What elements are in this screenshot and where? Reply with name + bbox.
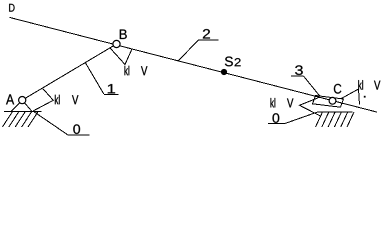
perpendicular-to-velocity wedge left of C bbox=[300, 97, 322, 116]
label 3 underline bbox=[291, 75, 304, 77]
label 0 right underline bbox=[268, 122, 286, 124]
label C bbox=[334, 84, 341, 94]
label 3 leader wire bbox=[304, 76, 320, 96]
label 0 right bbox=[273, 113, 280, 123]
label V left of C bbox=[287, 98, 293, 107]
ground hatching at A bbox=[2, 111, 38, 127]
label 0 left leader wire bbox=[33, 111, 67, 134]
wire link 1 A to B bbox=[22, 44, 116, 100]
ground line at A bbox=[4, 110, 42, 112]
label 1 underline bbox=[104, 94, 119, 96]
label 2 bbox=[203, 29, 210, 38]
ground hatching at C bbox=[316, 112, 355, 127]
label V right of C bbox=[374, 81, 380, 90]
label 0 left bbox=[73, 124, 80, 134]
right angle dot right of C bbox=[364, 96, 366, 98]
label kl left of C bbox=[271, 98, 276, 107]
label A bbox=[6, 94, 14, 104]
ground pivot legs at A bbox=[11, 100, 22, 111]
label 1 bbox=[108, 84, 115, 93]
label kl at B bbox=[125, 66, 130, 75]
label 2 leader wire bbox=[178, 40, 198, 61]
label 0 right leader wire bbox=[286, 112, 318, 123]
label V at B bbox=[141, 66, 147, 75]
label 2 of S2 bbox=[235, 58, 241, 66]
joint A circle bbox=[19, 97, 26, 104]
label 3 bbox=[295, 65, 303, 75]
label D bbox=[9, 4, 14, 12]
wire link 2 main line through D B S2 C bbox=[10, 17, 378, 112]
label kl right of C bbox=[358, 80, 363, 89]
label B bbox=[120, 30, 127, 39]
slider block 3 bbox=[313, 96, 344, 108]
label 2 underline bbox=[199, 39, 219, 41]
perpendicular-to-velocity wedge at B bbox=[110, 48, 132, 65]
label S of S2 bbox=[225, 57, 233, 67]
joint B circle bbox=[113, 40, 120, 47]
ground line at C bbox=[317, 111, 353, 113]
label V at A bbox=[72, 95, 78, 104]
joint C circle bbox=[329, 97, 336, 104]
label 0 left underline bbox=[67, 134, 89, 136]
label kl at A bbox=[55, 95, 60, 104]
perpendicular-to-velocity wedge at A bbox=[33, 88, 53, 111]
label 1 leader wire bbox=[85, 62, 104, 94]
node S2 mass center dot bbox=[221, 69, 227, 75]
perpendicular-to-velocity wedge right of C bbox=[341, 89, 360, 105]
